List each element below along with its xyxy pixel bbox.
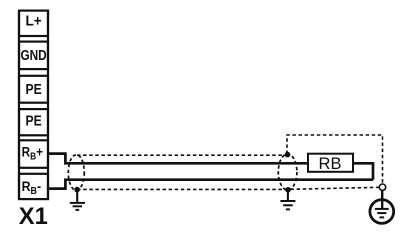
ground symbol (under right shield ellipse) (280, 192, 295, 210)
cable shield ellipse (left) (68, 155, 84, 191)
shield bottom dashed line (77, 188, 287, 190)
svg-text:GND: GND (20, 48, 46, 64)
wire RB- (bottom conductor) from terminal to right loop (48, 180, 373, 189)
svg-text:L+: L+ (26, 13, 42, 29)
housing terminal (open circle) (379, 184, 385, 190)
svg-text:X1: X1 (19, 203, 48, 230)
cable shield ellipse (right) (278, 154, 297, 190)
junction dot: right shield bottom to ground (285, 187, 291, 193)
protective earth (PE) symbol (370, 200, 394, 224)
terminal block X1 cell 3 (PE) (19, 76, 48, 103)
ground symbol (under left shield ellipse) (70, 192, 85, 210)
terminal block X1 cell 2 (GND) (19, 42, 48, 70)
shield top dashed line (77, 154, 288, 156)
wire RB+ (top conductor) from terminal to resistor RB (48, 154, 308, 164)
wire from housing terminal to protective earth (381, 190, 383, 208)
terminal block X1 cell 4 (PE) (19, 109, 48, 135)
terminal block X1 cell 1 (L+) (19, 11, 48, 36)
dashed line from shield to housing terminal circle (291, 187, 380, 189)
terminal block X1 cell 6 (RB-) (19, 174, 48, 199)
junction dot: right shield top to housing (285, 152, 291, 158)
svg-text:PE: PE (26, 82, 42, 98)
dashed enclosure (shielded housing) around resistor RB (287, 135, 383, 184)
svg-text:PE: PE (26, 113, 42, 129)
wire from resistor RB right terminal down to bottom conductor (353, 163, 373, 179)
terminal block X1 side rails (19, 11, 48, 200)
svg-text:RB: RB (319, 155, 342, 173)
terminal block X1 cell 5 (RB+) (19, 140, 48, 168)
junction dot: left shield to ground (74, 187, 80, 193)
resistor RB (308, 154, 353, 174)
